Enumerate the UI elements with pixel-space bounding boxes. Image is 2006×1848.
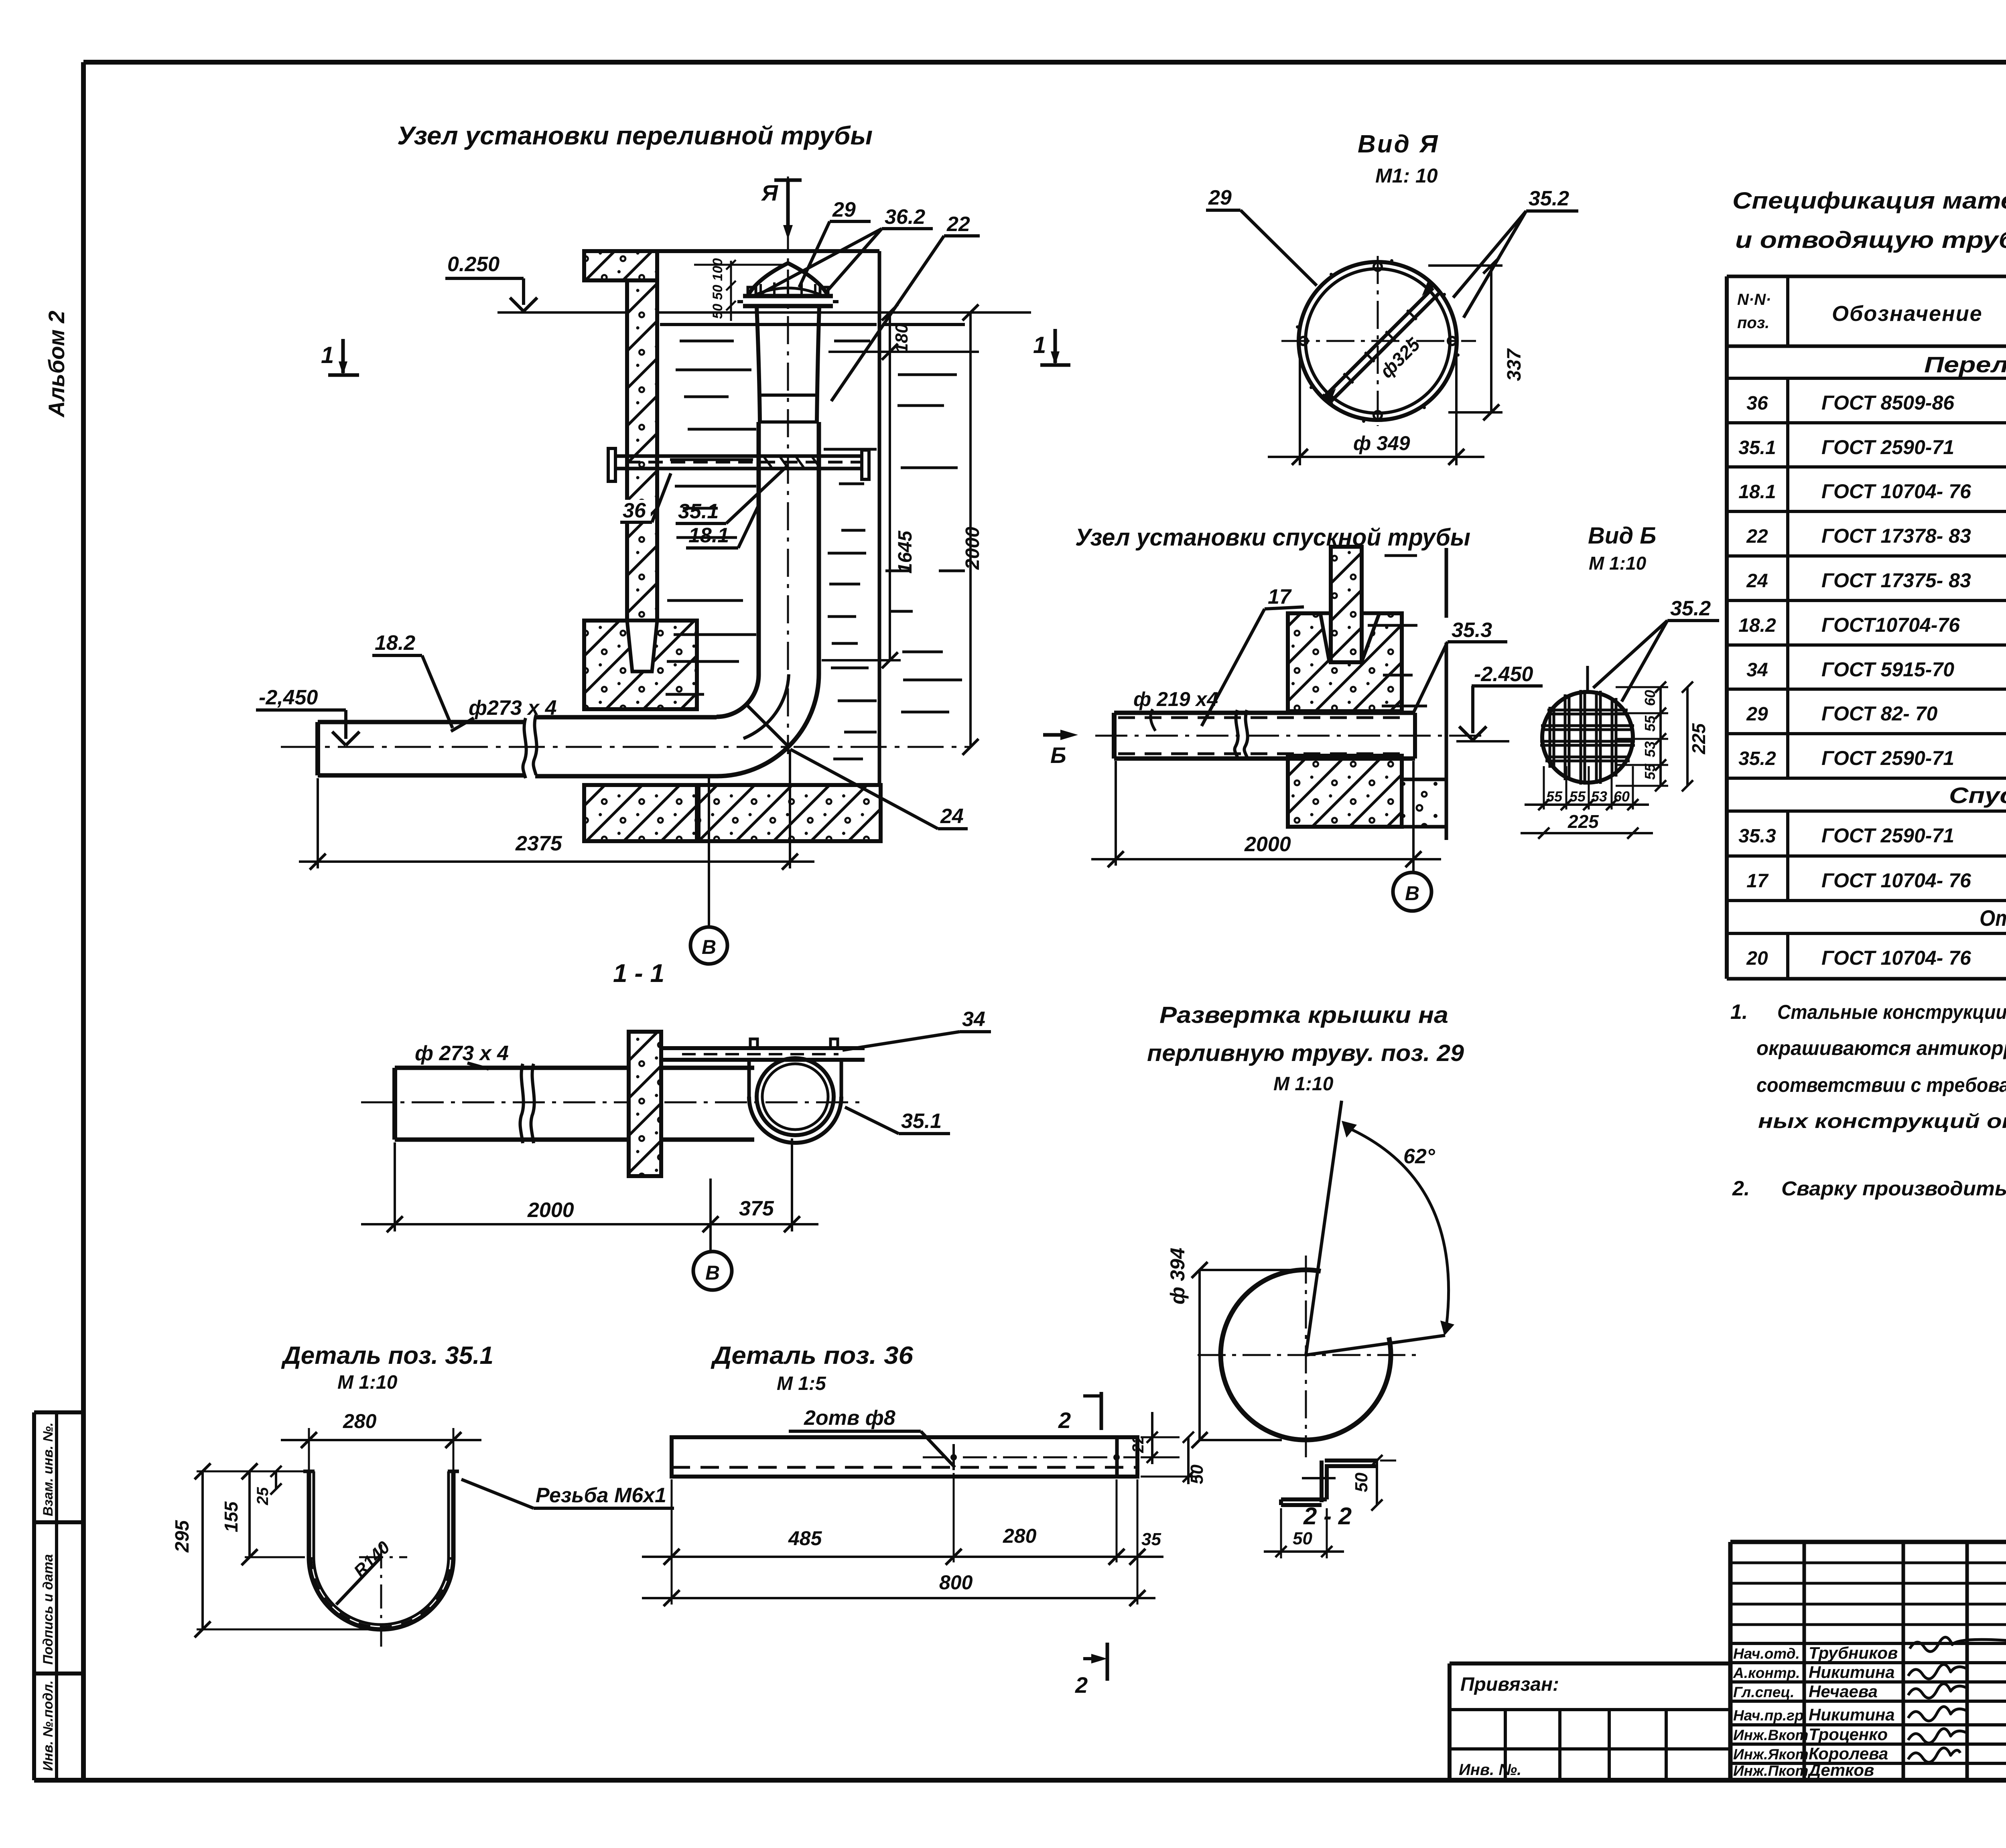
svg-text:Деталь поз. 35.1: Деталь поз. 35.1 [281,1342,493,1369]
svg-text:375: 375 [739,1197,774,1220]
svg-text:соответствии с требованиями: соответствии с требованиями СНиП2. 03. 1… [1756,1074,2006,1096]
svg-text:36: 36 [623,499,646,522]
svg-text:29: 29 [1746,704,1768,725]
svg-text:-2.450: -2.450 [1474,663,1533,686]
svg-text:Узел установки переливной труб: Узел установки переливной трубы [397,121,873,150]
svg-text:35.1: 35.1 [1738,437,1776,458]
svg-text:ГОСТ 82- 70: ГОСТ 82- 70 [1821,702,1938,725]
svg-text:2отв ф8: 2отв ф8 [804,1406,895,1430]
svg-text:поз.: поз. [1737,314,1769,332]
svg-text:280: 280 [1003,1525,1037,1547]
svg-text:18.2: 18.2 [375,631,415,655]
svg-text:Обозначение: Обозначение [1832,302,1983,326]
svg-text:2: 2 [1058,1408,1071,1433]
svg-text:Подпись и дата: Подпись и дата [41,1554,56,1665]
svg-text:Никитина: Никитина [1809,1663,1895,1682]
svg-text:ГОСТ 10704- 76: ГОСТ 10704- 76 [1821,947,1971,969]
svg-text:ГОСТ 5915-70: ГОСТ 5915-70 [1821,658,1954,681]
svg-text:53: 53 [1642,741,1658,757]
svg-text:Спускная труба: Спускная труба [1949,783,2006,808]
svg-text:Нечаева: Нечаева [1809,1682,1878,1701]
svg-text:Троценко: Троценко [1809,1725,1888,1744]
svg-text:ф 219 х4: ф 219 х4 [1133,688,1218,710]
svg-text:ф273 х 4: ф273 х 4 [469,696,557,720]
svg-text:55: 55 [1642,763,1658,780]
svg-text:М 1:5: М 1:5 [777,1373,826,1394]
svg-text:Трубников: Трубников [1809,1643,1898,1662]
svg-text:29: 29 [1208,186,1232,209]
svg-text:1: 1 [321,342,334,368]
svg-text:35.2: 35.2 [1738,748,1776,769]
svg-text:Взам. инв. №.: Взам. инв. №. [41,1422,56,1516]
svg-text:35.1: 35.1 [678,500,719,523]
svg-text:Резьба М6х1: Резьба М6х1 [536,1484,666,1507]
svg-text:35.3: 35.3 [1452,619,1492,642]
svg-text:36.2: 36.2 [885,205,925,229]
svg-text:Деталь поз. 36: Деталь поз. 36 [711,1342,914,1369]
svg-text:18.1: 18.1 [1738,481,1776,503]
svg-text:20: 20 [1746,948,1768,969]
svg-text:1645: 1645 [895,530,916,574]
svg-text:280: 280 [343,1410,377,1432]
svg-text:Инж.Вкот: Инж.Вкот [1733,1727,1808,1743]
svg-text:2000: 2000 [527,1199,574,1222]
svg-text:55: 55 [1569,788,1586,805]
svg-text:17: 17 [1268,585,1292,609]
svg-text:337: 337 [1504,348,1525,381]
svg-text:ф 349: ф 349 [1353,432,1410,454]
svg-text:225: 225 [1567,811,1599,832]
svg-text:Узел установки спускной трубы: Узел установки спускной трубы [1075,524,1470,551]
svg-text:Отводящая труба: Отводящая труба [1980,905,2006,931]
svg-text:М 1:10: М 1:10 [1589,553,1647,574]
svg-text:24: 24 [940,805,964,828]
svg-text:и отводящую трубы.: и отводящую трубы. [1735,227,2006,253]
svg-text:Развертка крышки на: Развертка крышки на [1159,1002,1448,1028]
svg-text:ГОСТ 17375- 83: ГОСТ 17375- 83 [1821,569,1971,592]
svg-text:ГОСТ 17378- 83: ГОСТ 17378- 83 [1821,525,1971,547]
svg-text:ных конструкций от корроз: ных конструкций от коррозий. [1758,1110,2006,1132]
svg-text:35.1: 35.1 [901,1110,942,1133]
svg-text:ГОСТ 2590-71: ГОСТ 2590-71 [1821,747,1954,769]
svg-text:55: 55 [1642,715,1658,732]
svg-text:Б: Б [1050,742,1066,768]
svg-text:В: В [1405,882,1419,905]
svg-text:М 1:10: М 1:10 [337,1372,398,1393]
svg-text:Инв. №.подл.: Инв. №.подл. [41,1680,56,1771]
svg-text:1 - 1: 1 - 1 [613,959,664,988]
svg-text:62°: 62° [1403,1145,1435,1168]
svg-text:800: 800 [939,1571,973,1594]
svg-text:В: В [705,1262,720,1284]
svg-text:Стальные конструкции водопров: Стальные конструкции водопроводного обор… [1777,1001,2006,1023]
svg-text:36: 36 [1746,393,1768,414]
svg-text:Гл.спец.: Гл.спец. [1733,1684,1795,1700]
svg-text:35.2: 35.2 [1529,187,1569,210]
svg-text:180: 180 [892,323,912,353]
svg-text:55: 55 [1546,788,1563,805]
svg-text:Вид Я: Вид Я [1358,130,1439,158]
svg-text:60: 60 [1642,690,1658,706]
svg-text:ГОСТ 10704- 76: ГОСТ 10704- 76 [1821,480,1971,503]
svg-text:50: 50 [1352,1473,1371,1492]
svg-text:50 50 100: 50 50 100 [710,258,725,319]
svg-text:Инж.Пкот: Инж.Пкот [1733,1763,1808,1779]
svg-text:М1: 10: М1: 10 [1375,164,1438,187]
svg-text:ф 273 х 4: ф 273 х 4 [415,1042,509,1065]
svg-text:2: 2 [1075,1672,1088,1698]
svg-text:34: 34 [1746,659,1768,681]
svg-text:Инв. №.: Инв. №. [1459,1761,1521,1779]
svg-text:35.3: 35.3 [1738,826,1776,847]
svg-text:ГОСТ10704-76: ГОСТ10704-76 [1821,614,1960,636]
svg-text:Сварку производить электродо: Сварку производить электродом типа Э-42 … [1781,1177,2006,1200]
svg-text:2000: 2000 [962,527,983,570]
svg-text:Альбом 2: Альбом 2 [44,310,69,418]
svg-text:22: 22 [1746,526,1768,547]
svg-text:N·N·: N·N· [1737,291,1771,308]
svg-text:Королева: Королева [1809,1744,1888,1763]
svg-text:24: 24 [1746,570,1768,592]
svg-text:60: 60 [1614,788,1630,805]
svg-text:Никитина: Никитина [1809,1705,1895,1724]
svg-text:34: 34 [962,1008,985,1031]
svg-text:2.: 2. [1732,1177,1750,1200]
svg-text:485: 485 [788,1527,822,1550]
svg-text:2000: 2000 [1244,833,1291,856]
svg-text:Вид Б: Вид Б [1588,523,1656,549]
svg-text:ГОСТ 2590-71: ГОСТ 2590-71 [1821,824,1954,847]
svg-text:перливную труву. поз. 29: перливную труву. поз. 29 [1147,1040,1464,1066]
svg-text:35.2: 35.2 [1670,597,1711,620]
svg-text:ф 394: ф 394 [1166,1248,1189,1304]
svg-text:Нач.пр.гр: Нач.пр.гр [1733,1707,1804,1724]
svg-text:ГОСТ 10704- 76: ГОСТ 10704- 76 [1821,869,1971,892]
svg-text:22: 22 [1129,1435,1147,1454]
svg-text:Привязан:: Привязан: [1460,1674,1559,1695]
svg-text:0.250: 0.250 [447,253,499,276]
svg-text:ГОСТ 8509-86: ГОСТ 8509-86 [1821,392,1955,414]
svg-text:35: 35 [1141,1530,1161,1549]
svg-text:В: В [702,936,716,958]
svg-text:225: 225 [1688,723,1709,755]
svg-text:-2,450: -2,450 [259,686,318,709]
svg-text:1.: 1. [1730,1000,1748,1024]
svg-text:17: 17 [1746,870,1769,892]
svg-text:295: 295 [172,1520,193,1553]
svg-text:Детков: Детков [1807,1761,1874,1779]
svg-text:1: 1 [1033,332,1046,358]
svg-text:50: 50 [1187,1465,1207,1484]
svg-text:29: 29 [832,198,856,221]
svg-text:Инж.Якот: Инж.Якот [1733,1746,1809,1763]
svg-text:50: 50 [1293,1529,1312,1548]
svg-text:окрашиваются антикоррозид: окрашиваются антикоррозидным покрытием в… [1756,1037,2006,1059]
svg-text:25: 25 [254,1487,272,1505]
svg-text:53: 53 [1591,788,1607,805]
svg-text:А.контр.: А.контр. [1733,1665,1800,1681]
svg-text:22: 22 [946,213,970,236]
svg-text:2375: 2375 [515,832,562,855]
svg-text:Я: Я [761,180,778,205]
svg-text:М 1:10: М 1:10 [1273,1073,1334,1095]
svg-text:ГОСТ 2590-71: ГОСТ 2590-71 [1821,436,1954,458]
svg-text:Переливная труба: Переливная труба [1924,352,2006,377]
svg-text:Нач.отд.: Нач.отд. [1733,1645,1800,1662]
svg-text:18.1: 18.1 [688,524,729,547]
svg-text:Спецификация материалов на пе: Спецификация материалов на переливную, с… [1732,188,2006,214]
svg-text:18.2: 18.2 [1738,615,1776,636]
svg-text:155: 155 [221,1501,242,1532]
